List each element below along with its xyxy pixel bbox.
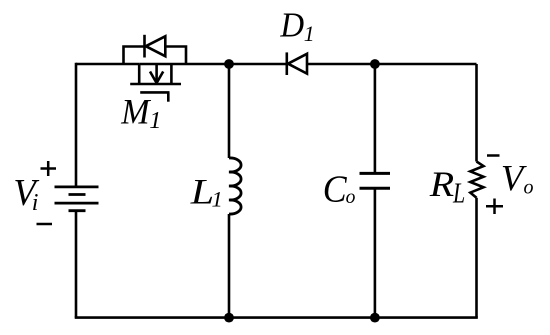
minus sign at Vi: [37, 223, 53, 226]
svg-text:1: 1: [149, 107, 161, 134]
node: Co top junction: [370, 59, 380, 69]
svg-text:R: R: [429, 164, 455, 204]
wire Co branch upper: [374, 64, 377, 173]
wire Co branch lower: [374, 188, 377, 317]
svg-text:L: L: [452, 179, 465, 210]
wire right vertical upper: to RL top: [475, 64, 478, 162]
wire L1 branch upper: [228, 64, 231, 158]
plus sign at Vi: [41, 161, 57, 176]
svg-text:M: M: [120, 92, 151, 132]
wire top-right: D1 anode to output corner: [307, 63, 477, 66]
wire L1 branch lower: [228, 214, 231, 318]
node: L1 top junction: [224, 59, 234, 69]
wire left vertical lower: Vi bottom: [75, 211, 78, 318]
svg-text:C: C: [323, 168, 348, 210]
svg-text:1: 1: [304, 22, 315, 46]
wire left vertical upper: Vi top: [75, 63, 78, 187]
resistor RL: [470, 162, 483, 198]
svg-text:o: o: [524, 177, 534, 199]
capacitor Co: [360, 173, 391, 188]
svg-text:D: D: [279, 6, 304, 45]
wire top-middle: MOSFET source to D1 cathode: [139, 63, 286, 66]
wire top-left: Vi+ to MOSFET drain: [76, 63, 139, 66]
svg-text:o: o: [346, 187, 356, 208]
node: L1 bottom junction: [224, 313, 234, 323]
wire bottom rail: [75, 316, 478, 319]
plus sign at Vo: [486, 199, 503, 215]
transistor M1 (MOSFET symbol): [130, 64, 181, 102]
node: Co bottom junction: [370, 313, 380, 323]
svg-text:i: i: [32, 190, 39, 216]
inductor L1: [229, 158, 241, 214]
svg-text:L: L: [190, 171, 215, 211]
svg-text:1: 1: [212, 187, 223, 212]
battery Vi: [55, 187, 99, 211]
body diode of M1 (loop above with diode): [124, 35, 187, 64]
diode D1: [287, 52, 307, 75]
minus sign at Vo: [487, 154, 500, 157]
wire right vertical lower: from RL bottom: [475, 198, 478, 318]
